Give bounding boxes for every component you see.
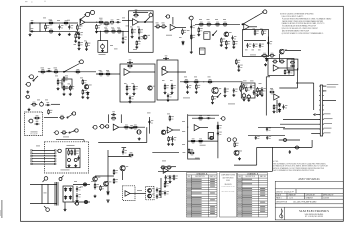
transistor Q10 pair xyxy=(233,138,237,142)
potentiometer trim xyxy=(149,12,153,17)
op-amp U6B xyxy=(167,127,173,133)
resistor R40 xyxy=(63,85,65,92)
capacitor C13 xyxy=(240,64,243,67)
table CHANNEL B xyxy=(238,173,268,218)
resistor R29 xyxy=(233,40,235,46)
label xyxy=(199,18,202,21)
wire xyxy=(190,20,192,51)
capacitor C14 xyxy=(270,40,273,43)
potentiometer VR2 xyxy=(40,101,44,106)
capacitor C2 xyxy=(31,27,34,30)
table row xyxy=(187,215,191,218)
wire xyxy=(188,158,200,160)
scan dust specks xyxy=(25,0,28,3)
pin 11 xyxy=(319,133,320,135)
label xyxy=(194,76,197,79)
capacitor C41 xyxy=(171,175,174,178)
label xyxy=(132,82,135,85)
svg-text:161-148C PRE-AMP BOARD: 161-148C PRE-AMP BOARD xyxy=(293,200,317,203)
box fx input xyxy=(25,112,43,136)
wire rail xyxy=(258,126,285,128)
label R2 xyxy=(49,19,53,22)
wire xyxy=(98,142,147,144)
ground xyxy=(74,40,77,43)
ground xyxy=(95,30,98,33)
wire bus xyxy=(195,23,240,25)
resistor R96 xyxy=(71,150,73,156)
label CHANNEL LED xyxy=(67,144,75,147)
label 1/4 SEND xyxy=(63,136,69,139)
table row xyxy=(187,205,191,208)
op-amp U1A xyxy=(80,19,85,25)
capacitor C34 xyxy=(207,114,210,117)
svg-text:ASS'Y #07-026-01: ASS'Y #07-026-01 xyxy=(298,177,320,181)
resistor R69 xyxy=(68,150,70,156)
wire route xyxy=(257,146,312,148)
transistor Q3 xyxy=(285,48,288,51)
ground xyxy=(29,33,32,36)
connector xyxy=(74,202,78,205)
label xyxy=(182,120,185,123)
svg-text:COMPONENT NOTES: COMPONENT NOTES xyxy=(221,174,235,176)
label C3 xyxy=(57,19,60,22)
box gain stage B1 xyxy=(120,64,155,102)
resistor R27 xyxy=(221,38,223,44)
wire pin lead xyxy=(323,99,336,101)
label xyxy=(250,80,254,83)
label xyxy=(270,87,273,90)
label xyxy=(110,44,113,47)
label xyxy=(228,103,235,106)
ground xyxy=(256,94,259,97)
ground xyxy=(101,49,104,52)
label xyxy=(126,25,129,28)
wire xyxy=(123,148,125,151)
wire ribbon 5 xyxy=(32,160,56,162)
capacitor C38 xyxy=(158,194,161,197)
table row xyxy=(238,185,242,188)
wire xyxy=(96,21,109,23)
capacitor C45 xyxy=(124,36,127,39)
resistor R33 xyxy=(261,55,268,57)
switch S5 xyxy=(69,131,75,133)
svg-text:DWG NO: DWG NO xyxy=(276,192,283,194)
svg-text:REF. DESIG OMITTED: REF. DESIG OMITTED xyxy=(222,190,235,192)
resistor R31 xyxy=(262,30,264,36)
ground xyxy=(133,92,136,95)
capacitor C38a xyxy=(269,135,272,138)
transistor Q9 xyxy=(227,138,231,142)
op-amp U7A xyxy=(194,125,200,131)
resistor R75 xyxy=(168,136,170,142)
resistor R5 xyxy=(77,24,79,31)
resistor R74 xyxy=(169,115,171,121)
op-amp U9 xyxy=(163,168,168,174)
table row xyxy=(187,189,191,192)
ground xyxy=(164,180,167,183)
table row xyxy=(187,185,191,188)
resistor R16 xyxy=(138,28,140,35)
table row xyxy=(238,205,242,208)
resistor R52 xyxy=(171,84,173,91)
connector xyxy=(165,15,170,18)
wire xyxy=(29,23,31,31)
resistor R95 xyxy=(259,90,261,95)
resistor R66 xyxy=(273,104,275,110)
table row xyxy=(238,180,242,183)
resistor R51 xyxy=(164,84,166,91)
ground xyxy=(138,137,141,140)
node xyxy=(63,71,64,72)
capacitor C39 xyxy=(166,190,169,193)
capacitor C9 xyxy=(234,35,237,38)
table row xyxy=(187,198,191,201)
op-amp U4B xyxy=(162,69,168,76)
wire xyxy=(173,129,180,131)
op-amp U2B xyxy=(170,24,176,30)
capacitor C22 xyxy=(189,84,192,87)
table row xyxy=(238,215,242,218)
label xyxy=(111,27,114,30)
scan artifact streak 2 xyxy=(0,210,1,216)
capacitor C40 xyxy=(167,175,170,178)
wire route xyxy=(279,139,300,141)
connector AC plug 1 xyxy=(43,177,48,182)
resistor R84 xyxy=(113,178,115,184)
resistor R19 xyxy=(160,26,167,28)
label pin net J1 xyxy=(327,83,339,86)
connector J3 xyxy=(188,16,193,20)
switch jack contact xyxy=(80,16,86,21)
resistor R28 xyxy=(226,40,228,46)
wire xyxy=(279,54,281,62)
transistor Q4 xyxy=(89,84,92,87)
capacitor C25 xyxy=(263,87,266,90)
wire xyxy=(176,27,186,29)
wire xyxy=(51,103,60,105)
resistor R8 xyxy=(86,42,88,48)
box footswitch logic xyxy=(200,48,206,54)
resistor R71 xyxy=(111,117,116,119)
label xyxy=(204,32,208,35)
potentiometer VR4 xyxy=(247,94,250,99)
resistor R60 xyxy=(246,87,248,93)
svg-text:REF: REF xyxy=(188,176,191,178)
ground xyxy=(68,33,71,36)
fuse F1 xyxy=(59,176,64,181)
wire xyxy=(192,117,215,119)
box bias network xyxy=(208,133,213,139)
box bright switch xyxy=(204,32,210,40)
label net xyxy=(324,117,333,120)
ground xyxy=(243,98,246,101)
resistor R64 xyxy=(284,70,286,75)
svg-text:CHECKED BY: CHECKED BY xyxy=(306,194,315,196)
ground xyxy=(64,208,67,211)
wire xyxy=(172,17,174,25)
wire xyxy=(108,156,131,158)
table row xyxy=(238,192,242,195)
resistor R67 xyxy=(34,117,41,119)
label xyxy=(65,75,68,78)
label xyxy=(130,26,133,29)
resistor R6 xyxy=(75,33,77,40)
label xyxy=(223,18,226,21)
capacitor C30 xyxy=(112,110,115,113)
label xyxy=(208,76,211,79)
ground xyxy=(167,143,170,146)
capacitor C12 xyxy=(261,43,264,46)
capacitor C33 xyxy=(174,136,177,139)
box bridge rectifier xyxy=(63,186,73,202)
node xyxy=(96,22,97,23)
node xyxy=(39,22,40,23)
resistor R53 xyxy=(183,81,190,83)
wire xyxy=(148,117,150,134)
connector J11 xyxy=(92,125,97,129)
diode D10 xyxy=(64,187,66,191)
scan artifact streak xyxy=(1,200,3,218)
connector AC plug 2 xyxy=(44,206,49,211)
resistor R65 xyxy=(270,91,275,93)
ground xyxy=(68,164,71,167)
ground xyxy=(57,87,60,90)
connector J8 xyxy=(28,119,33,123)
ground xyxy=(247,99,250,102)
wire xyxy=(80,20,82,24)
resistor R58 xyxy=(224,87,226,94)
node xyxy=(203,81,204,82)
capacitor C6 xyxy=(135,9,138,12)
ground xyxy=(237,69,240,72)
label xyxy=(162,22,165,25)
resistor R77 xyxy=(190,140,196,142)
wire xyxy=(100,31,102,41)
wire pin lead xyxy=(311,133,320,135)
node xyxy=(100,31,101,32)
resistor R78 xyxy=(198,140,204,142)
node xyxy=(68,149,69,150)
ground xyxy=(225,46,228,49)
ground xyxy=(197,33,200,36)
resistor R36 xyxy=(40,71,47,73)
ground xyxy=(131,35,134,38)
resistor R62 xyxy=(272,61,278,63)
label xyxy=(80,186,83,189)
svg-text:FX LOOP: FX LOOP xyxy=(31,133,38,135)
label xyxy=(122,17,125,20)
resistor R82 xyxy=(129,154,134,156)
capacitor C29 xyxy=(36,120,39,123)
resistor R18 xyxy=(155,26,162,28)
LED D6 xyxy=(68,159,71,162)
capacitor C20 xyxy=(165,55,168,58)
label LED xyxy=(36,145,40,148)
ground xyxy=(28,108,31,111)
capacitor C28 xyxy=(289,150,291,154)
box relay dashed xyxy=(146,187,155,200)
label OPTO xyxy=(137,189,142,192)
ground xyxy=(135,46,138,49)
switch S4 xyxy=(63,64,79,73)
table row xyxy=(187,203,191,206)
switch S6 xyxy=(67,115,72,119)
wire rail xyxy=(248,135,285,137)
label xyxy=(104,27,107,30)
wire ribbon 1 xyxy=(32,150,56,152)
resistor R90 xyxy=(167,167,172,169)
capacitor C23 xyxy=(235,88,238,91)
ground xyxy=(167,99,170,102)
label xyxy=(74,43,77,46)
table row xyxy=(187,208,191,211)
resistor R94 xyxy=(243,84,245,89)
fuse F2 xyxy=(294,146,300,149)
wire route long xyxy=(158,170,273,172)
label xyxy=(245,49,248,52)
svg-text:07-026-01 PP: 07-026-01 PP xyxy=(284,192,294,194)
svg-text:CHANNEL B: CHANNEL B xyxy=(247,172,259,175)
ground xyxy=(261,94,264,97)
ground xyxy=(76,31,79,34)
label xyxy=(74,180,77,183)
capacitor C3 xyxy=(61,24,64,27)
wire xyxy=(188,114,219,116)
wire pin lead xyxy=(280,123,320,125)
diode D5 xyxy=(278,108,280,112)
label VOLUME A xyxy=(99,53,106,56)
wire bus B xyxy=(38,71,96,73)
node A xyxy=(77,22,78,23)
ground xyxy=(74,164,77,167)
connector J10 xyxy=(74,129,79,132)
table row xyxy=(187,196,191,199)
wire xyxy=(130,192,146,194)
capacitor C37a xyxy=(257,135,260,138)
label xyxy=(252,49,255,52)
table row xyxy=(187,212,191,215)
resistor R85 xyxy=(94,183,96,190)
wire ribbon 6 xyxy=(32,163,56,165)
table CHANNEL A xyxy=(187,173,218,218)
label net xyxy=(324,112,331,115)
wire bus A lower xyxy=(30,30,77,32)
wire xyxy=(119,126,145,128)
box bias ladder xyxy=(62,79,72,88)
resistor R44 xyxy=(31,104,38,106)
capacitor C5 xyxy=(80,31,83,34)
capacitor C19 xyxy=(131,95,134,98)
pin 5 xyxy=(319,104,320,106)
table row xyxy=(238,194,242,197)
label xyxy=(114,48,118,51)
ground xyxy=(26,90,29,93)
resistor R10 xyxy=(103,23,110,25)
resistor R86 xyxy=(100,185,102,191)
resistor R34 xyxy=(269,55,276,57)
switch S3 channel select xyxy=(242,13,263,25)
table row xyxy=(238,201,242,204)
label xyxy=(170,79,173,82)
transistor Q1 xyxy=(147,34,150,37)
wire route xyxy=(311,140,313,147)
capacitor C26 xyxy=(290,69,293,72)
wire ribbon 2 xyxy=(32,152,56,154)
op-amp U5B xyxy=(274,94,280,100)
resistor R49 xyxy=(126,85,128,92)
ground xyxy=(211,101,214,104)
box footswitch cable dashed xyxy=(45,142,89,173)
wire xyxy=(47,184,49,203)
wire xyxy=(279,67,294,69)
table row xyxy=(187,180,191,183)
wire xyxy=(120,114,122,123)
resistor R20 xyxy=(191,34,193,41)
wire pin lead xyxy=(283,118,320,120)
svg-text:CHANNEL A: CHANNEL A xyxy=(196,172,208,175)
diode D12 xyxy=(64,195,66,199)
ground xyxy=(186,91,189,94)
switch S2 xyxy=(212,31,217,36)
table row xyxy=(187,201,191,204)
resistor R68 xyxy=(61,132,68,134)
resistor R93 xyxy=(96,24,98,30)
connector P1 header strip xyxy=(320,85,322,136)
pin 6 xyxy=(319,109,320,111)
resistor R7 xyxy=(78,41,80,47)
resistor R57 xyxy=(212,95,214,101)
table row xyxy=(238,187,242,190)
capacitor C17 xyxy=(47,101,50,104)
resistor R54 xyxy=(193,81,200,83)
label xyxy=(258,49,261,52)
box channel led xyxy=(66,148,80,167)
resistor R25 xyxy=(222,24,229,26)
label FX LOOP xyxy=(31,131,38,134)
op-amp U8 xyxy=(125,191,130,197)
resistor R15 xyxy=(131,28,133,35)
wire bus xyxy=(96,30,129,32)
svg-text:ST. LOUIS, MO 63133: ST. LOUIS, MO 63133 xyxy=(305,216,323,218)
capacitor C36a xyxy=(268,127,271,130)
diode D4 xyxy=(278,103,280,107)
wire xyxy=(160,178,162,198)
label xyxy=(167,113,170,116)
ground xyxy=(190,51,193,54)
wire feedback xyxy=(139,12,148,14)
node xyxy=(39,31,40,32)
node xyxy=(187,127,188,128)
capacitor C27 xyxy=(285,104,288,107)
wire route xyxy=(272,147,274,171)
wire xyxy=(108,114,110,123)
resistor R12 xyxy=(110,31,117,33)
wire xyxy=(188,140,218,142)
transistor Q13 xyxy=(98,176,101,179)
resistor R50 xyxy=(133,85,135,92)
wire xyxy=(187,114,189,159)
ground xyxy=(164,91,167,94)
wire xyxy=(267,37,269,55)
resistor R97 xyxy=(57,79,59,86)
table row xyxy=(238,196,242,199)
transistor Q15 xyxy=(152,193,155,196)
wire AC neutral xyxy=(30,203,57,205)
wire xyxy=(146,127,148,142)
capacitor C10 xyxy=(249,43,252,46)
label xyxy=(184,76,187,79)
wire pin lead xyxy=(323,90,327,92)
